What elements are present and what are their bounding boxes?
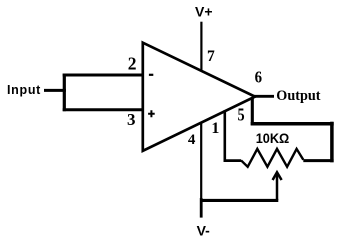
- svg-text:3: 3: [127, 110, 136, 129]
- svg-text:2: 2: [128, 53, 137, 73]
- wire pin 5 down: [251, 98, 254, 125]
- svg-text:V+: V+: [195, 4, 213, 20]
- svg-text:5: 5: [238, 105, 245, 125]
- wire input vertical bus: [63, 74, 66, 112]
- svg-text:6: 6: [255, 68, 262, 87]
- svg-text:4: 4: [188, 132, 196, 148]
- wire pin 7 (V+ supply): [200, 22, 202, 71]
- wire input stub: [44, 89, 66, 92]
- wire feedback top horizontal: [251, 122, 334, 126]
- minus sign (inverting input): [149, 74, 153, 76]
- op-amp U1 triangle: [143, 43, 255, 151]
- svg-text:1: 1: [211, 120, 219, 137]
- wire right terminal of pot: [303, 159, 333, 162]
- svg-text:Input: Input: [7, 83, 41, 97]
- wire pin 1 down: [224, 110, 227, 162]
- wire to pin 3 (non-inverting input): [63, 108, 143, 111]
- wire output: [253, 95, 274, 98]
- wire pin 4 / V- lead: [200, 123, 202, 199]
- svg-text:7: 7: [207, 48, 215, 65]
- svg-text:V-: V-: [197, 222, 211, 238]
- wiper arrow of potentiometer: [276, 173, 279, 201]
- wire to pin 2 (inverting input): [63, 74, 143, 77]
- wire feedback right vertical: [330, 122, 334, 163]
- wire left terminal of pot: [224, 159, 242, 162]
- plus sign (non-inverting input): [148, 110, 155, 117]
- svg-text:10KΩ: 10KΩ: [256, 130, 290, 146]
- potentiometer R1 zigzag: [241, 149, 303, 167]
- wire bottom rail: [200, 199, 278, 202]
- svg-text:Output: Output: [276, 88, 320, 104]
